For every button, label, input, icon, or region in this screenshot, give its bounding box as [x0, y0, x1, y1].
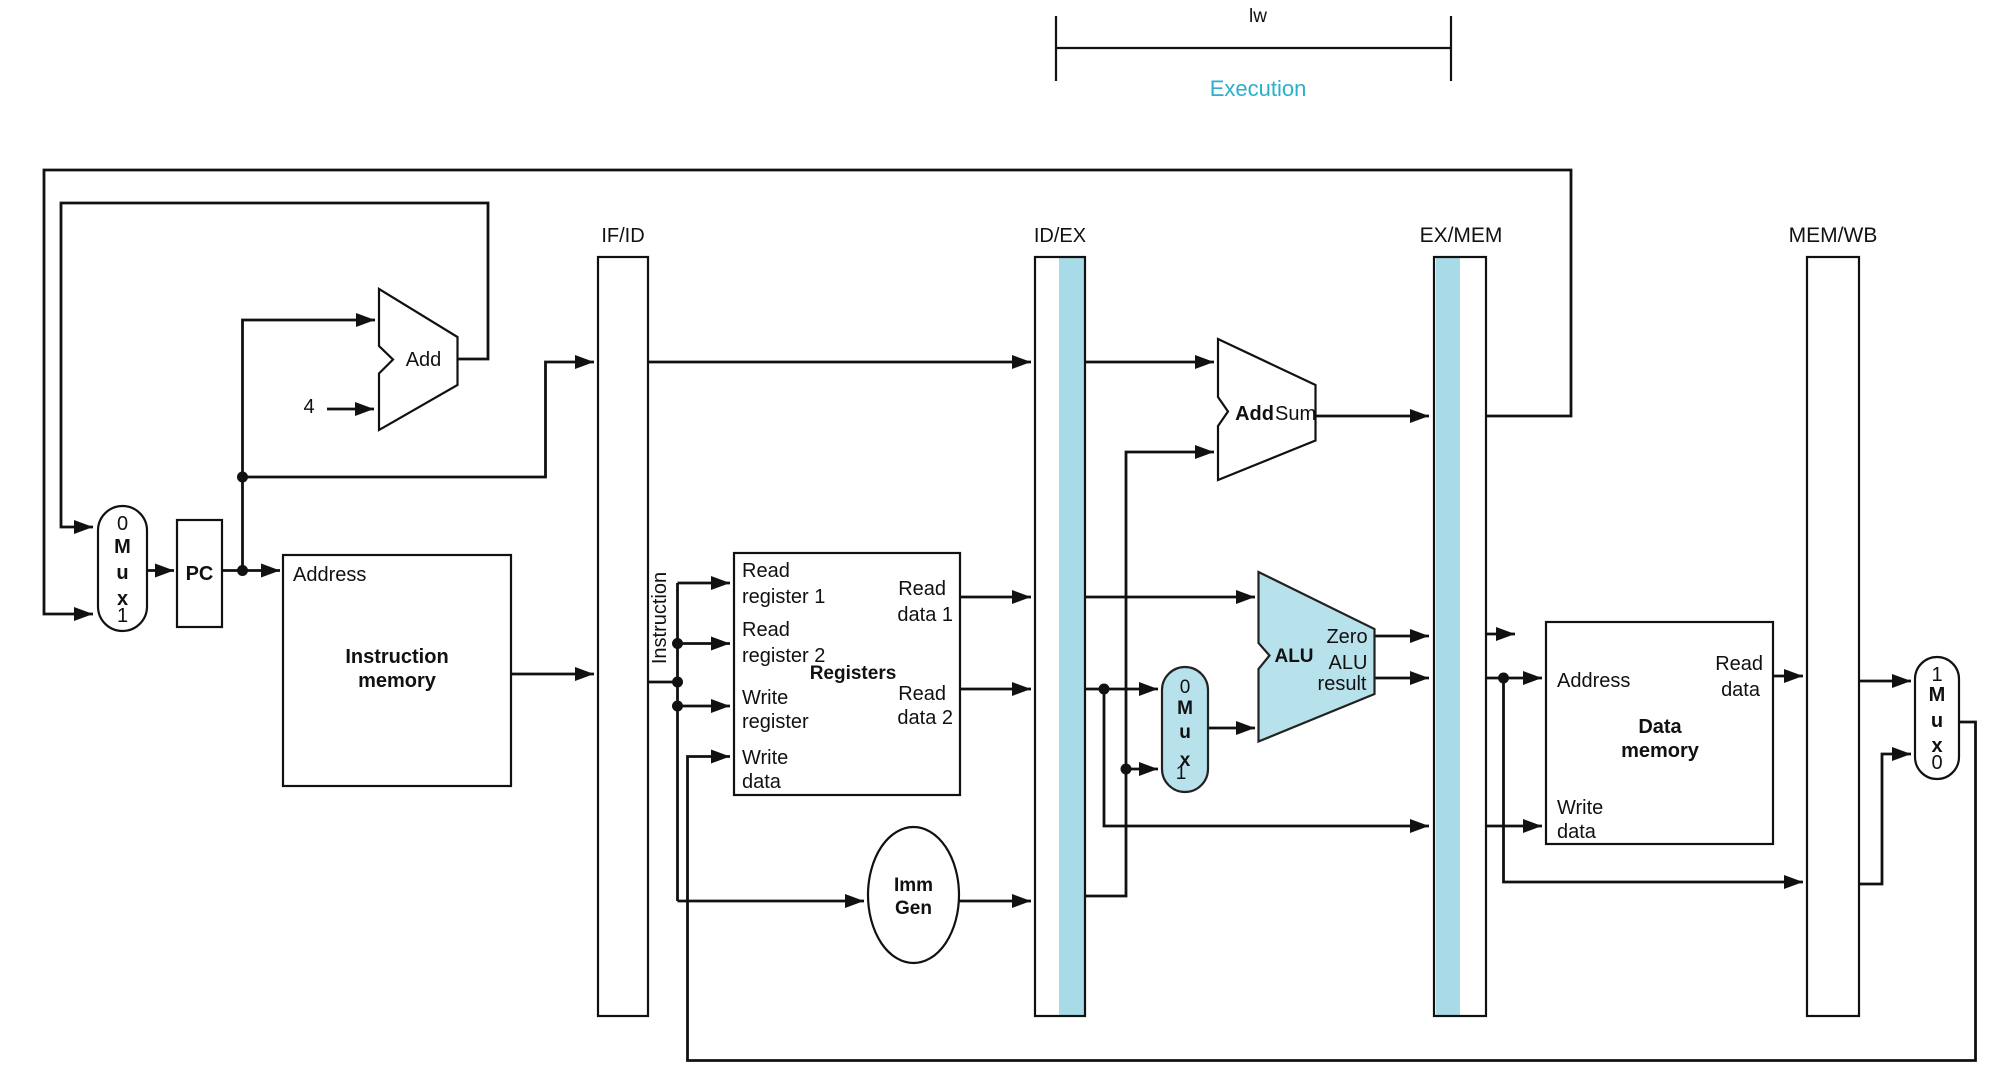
svg-text:data 2: data 2 [897, 707, 953, 729]
svg-text:Add: Add [406, 349, 442, 371]
svg-text:1: 1 [1931, 664, 1942, 686]
svg-text:Address: Address [293, 564, 366, 586]
svg-text:Registers: Registers [810, 663, 897, 684]
svg-text:register 1: register 1 [742, 586, 825, 608]
svg-text:Sum: Sum [1275, 403, 1316, 425]
svg-text:memory: memory [1621, 740, 1700, 762]
svg-text:Instruction: Instruction [649, 572, 671, 664]
svg-text:1: 1 [117, 605, 128, 627]
svg-text:0: 0 [1931, 752, 1942, 774]
svg-text:Write: Write [1557, 797, 1603, 819]
svg-text:Read: Read [742, 560, 790, 582]
svg-text:Read: Read [898, 683, 946, 705]
svg-text:data: data [1557, 821, 1597, 843]
svg-text:Data: Data [1638, 716, 1682, 738]
svg-text:data: data [1721, 679, 1761, 701]
svg-text:register: register [742, 711, 809, 733]
svg-text:M: M [1177, 698, 1193, 719]
svg-text:Read: Read [898, 578, 946, 600]
svg-text:Read: Read [1715, 653, 1763, 675]
svg-text:u: u [1179, 722, 1191, 743]
svg-text:ALU: ALU [1274, 646, 1313, 667]
svg-text:Imm: Imm [894, 875, 933, 896]
svg-text:lw: lw [1249, 6, 1267, 27]
svg-text:M: M [1929, 684, 1946, 706]
svg-text:u: u [1931, 710, 1943, 732]
svg-text:memory: memory [358, 670, 437, 692]
svg-text:1: 1 [1176, 763, 1187, 784]
svg-text:0: 0 [1180, 677, 1191, 698]
svg-text:IF/ID: IF/ID [601, 225, 644, 247]
svg-text:u: u [116, 562, 128, 584]
svg-text:Add: Add [1235, 403, 1274, 425]
svg-text:0: 0 [117, 513, 128, 535]
svg-text:Gen: Gen [895, 898, 932, 919]
svg-text:data 1: data 1 [897, 604, 953, 626]
svg-text:Read: Read [742, 619, 790, 641]
svg-text:result: result [1318, 673, 1367, 695]
svg-text:ALU: ALU [1329, 652, 1368, 674]
svg-text:ID/EX: ID/EX [1034, 225, 1086, 247]
svg-text:M: M [114, 536, 131, 558]
svg-text:Write: Write [742, 687, 788, 709]
svg-text:Write: Write [742, 747, 788, 769]
svg-text:Instruction: Instruction [345, 646, 448, 668]
svg-text:data: data [742, 771, 782, 793]
svg-text:MEM/WB: MEM/WB [1789, 224, 1878, 247]
svg-text:Zero: Zero [1326, 626, 1367, 648]
svg-text:PC: PC [186, 563, 214, 585]
svg-text:Execution: Execution [1210, 76, 1307, 101]
svg-text:4: 4 [303, 396, 314, 418]
svg-text:Address: Address [1557, 670, 1630, 692]
svg-text:EX/MEM: EX/MEM [1420, 224, 1503, 247]
